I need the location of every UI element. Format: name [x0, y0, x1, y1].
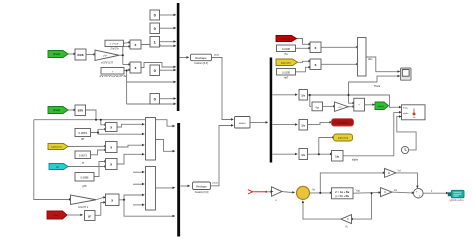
svg-text:MT: MT [81, 138, 85, 141]
svg-text:y(s)=C·x+D·u: y(s)=C·x+D·u [450, 200, 465, 202]
svg-text:[theta]: [theta] [53, 53, 60, 56]
svg-text:x: x [110, 146, 112, 150]
svg-text:u²: u² [88, 215, 91, 219]
svg-text:1/s: 1/s [301, 124, 305, 128]
svg-text:x: x [110, 126, 112, 130]
svg-text:0.0073: 0.0073 [79, 154, 87, 158]
svg-text:x: x [111, 198, 113, 202]
svg-text:Y(s): Y(s) [356, 190, 361, 193]
svg-text:2*a^2*b: 2*a^2*b [110, 47, 119, 50]
svg-text:[thetaDot]: [thetaDot] [338, 121, 348, 124]
svg-text:[theta]: [theta] [53, 109, 60, 112]
svg-text:a²b²: a²b² [103, 55, 107, 58]
svg-text:Custom [3,3]: Custom [3,3] [195, 191, 209, 194]
svg-text:1/s: 1/s [301, 94, 305, 98]
svg-text:Reshape: Reshape [196, 184, 207, 188]
svg-text:x: x [135, 43, 137, 47]
svg-text:[3x3]: [3x3] [213, 183, 218, 185]
svg-text:alpha: alpha [403, 113, 409, 115]
svg-text:m²s²/JT 1: m²s²/JT 1 [78, 206, 89, 209]
svg-text:x: x [110, 163, 112, 167]
svg-text:Kin: Kin [413, 117, 416, 119]
svg-text:x: x [315, 63, 317, 67]
svg-text:1/u: 1/u [335, 155, 339, 159]
svg-text:[Vm]: [Vm] [54, 215, 59, 217]
svg-text:HaT: HaT [284, 76, 289, 79]
svg-text:[alphaDot]: [alphaDot] [52, 146, 62, 149]
svg-text:y = Cx + Du: y = Cx + Du [335, 195, 349, 198]
svg-text:D: D [388, 171, 390, 175]
svg-text:Custom [3,3]: Custom [3,3] [194, 62, 208, 65]
svg-text:x' = Ax + Bu: x' = Ax + Bu [335, 191, 350, 194]
svg-text:x: x [315, 46, 317, 50]
svg-text:0.0195: 0.0195 [282, 71, 290, 75]
svg-text:cos: cos [77, 53, 83, 57]
svg-text:√u: √u [315, 105, 319, 109]
svg-text:[alphaDD]: [alphaDD] [281, 62, 291, 64]
svg-text:-1/J: -1/J [338, 107, 342, 109]
svg-text:Reshape: Reshape [195, 56, 207, 60]
svg-text:2·a²·b/JT: 2·a²·b/JT [110, 43, 120, 46]
svg-text:gTK: gTK [82, 185, 87, 188]
svg-text:MatMul: MatMul [239, 122, 246, 125]
svg-text:0.0195: 0.0195 [282, 47, 290, 51]
svg-text:sin: sin [78, 109, 83, 113]
svg-text:[3x3]: [3x3] [214, 55, 219, 57]
svg-text:[alphaDot]: [alphaDot] [338, 137, 348, 140]
svg-text:alpha: alpha [352, 159, 359, 162]
svg-text:0.2815: 0.2815 [79, 131, 88, 135]
svg-text:[theta]: [theta] [378, 105, 384, 108]
svg-text:0.0086: 0.0086 [81, 176, 89, 180]
svg-text:-2*a^2*b^2*cos*sin/JT*Jw: -2*a^2*b^2*cos*sin/JT*Jw [99, 75, 127, 78]
svg-text:[g]: [g] [56, 167, 59, 169]
svg-text:Theta: Theta [374, 85, 381, 88]
svg-text:1/s: 1/s [301, 153, 305, 157]
svg-text:[thetaDD]: [thetaDD] [281, 38, 291, 41]
svg-text:x: x [135, 66, 137, 70]
svg-text:C: C [384, 190, 386, 194]
svg-text:theta: theta [403, 107, 409, 110]
svg-text:a^2*b^2/JT: a^2*b^2/JT [101, 61, 113, 64]
